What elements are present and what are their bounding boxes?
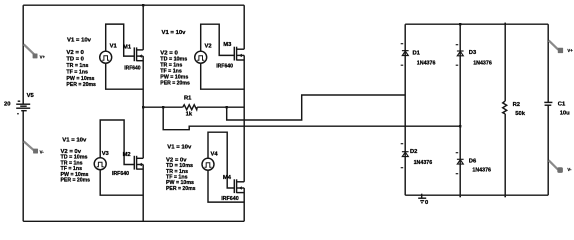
svg-text:D2: D2: [410, 149, 417, 155]
svg-text:1N4376: 1N4376: [473, 61, 492, 67]
svg-text:V+: V+: [567, 48, 573, 53]
svg-text:M4: M4: [223, 175, 232, 181]
svg-text:IRF640: IRF640: [216, 63, 233, 69]
svg-text:50k: 50k: [515, 111, 525, 117]
svg-text:D3: D3: [469, 50, 477, 56]
svg-text:V3: V3: [102, 151, 110, 157]
svg-text:IRF640: IRF640: [221, 196, 239, 202]
svg-text:PER = 20ms: PER = 20ms: [160, 81, 190, 87]
svg-text:IRF640: IRF640: [112, 171, 129, 177]
svg-text:V5: V5: [27, 93, 35, 99]
svg-text:PER = 20ms: PER = 20ms: [66, 82, 96, 88]
svg-text:PER = 20ms: PER = 20ms: [61, 178, 91, 184]
svg-text:TD = 0: TD = 0: [66, 57, 84, 63]
svg-text:1N4376: 1N4376: [414, 160, 433, 166]
svg-text:V4: V4: [211, 151, 219, 157]
svg-text:D1: D1: [413, 50, 421, 56]
svg-text:V1 = 10v: V1 = 10v: [62, 138, 87, 144]
svg-text:PW = 10ms: PW = 10ms: [66, 76, 94, 82]
svg-text:20: 20: [4, 102, 10, 108]
svg-text:V2: V2: [205, 44, 212, 50]
svg-text:IRF640: IRF640: [124, 65, 140, 71]
svg-text:V1: V1: [110, 43, 118, 49]
svg-text:V-: V-: [40, 150, 45, 155]
svg-text:1N4376: 1N4376: [472, 168, 491, 174]
svg-text:V2 = 0: V2 = 0: [66, 50, 84, 56]
svg-text:V1 = 10v: V1 = 10v: [67, 38, 92, 44]
svg-text:R2: R2: [513, 102, 520, 108]
svg-text:D6: D6: [469, 158, 477, 164]
svg-text:1N4376: 1N4376: [417, 60, 436, 66]
svg-text:V+: V+: [40, 54, 46, 59]
svg-text:TR = 1ns: TR = 1ns: [66, 63, 88, 69]
svg-text:0: 0: [425, 200, 428, 206]
svg-text:V1 = 10v: V1 = 10v: [162, 30, 187, 36]
svg-text:PER = 20ms: PER = 20ms: [166, 186, 196, 192]
svg-text:V-: V-: [567, 167, 572, 172]
svg-text:M2: M2: [123, 152, 131, 158]
svg-text:M1: M1: [123, 44, 132, 50]
svg-text:1k: 1k: [186, 112, 193, 118]
svg-text:10u: 10u: [560, 111, 570, 117]
svg-text:R1: R1: [184, 96, 192, 102]
svg-text:V1 = 10v: V1 = 10v: [167, 145, 192, 151]
svg-text:TF = 1ns: TF = 1ns: [66, 69, 88, 75]
svg-text:C1: C1: [558, 101, 566, 107]
svg-text:M3: M3: [223, 42, 232, 48]
